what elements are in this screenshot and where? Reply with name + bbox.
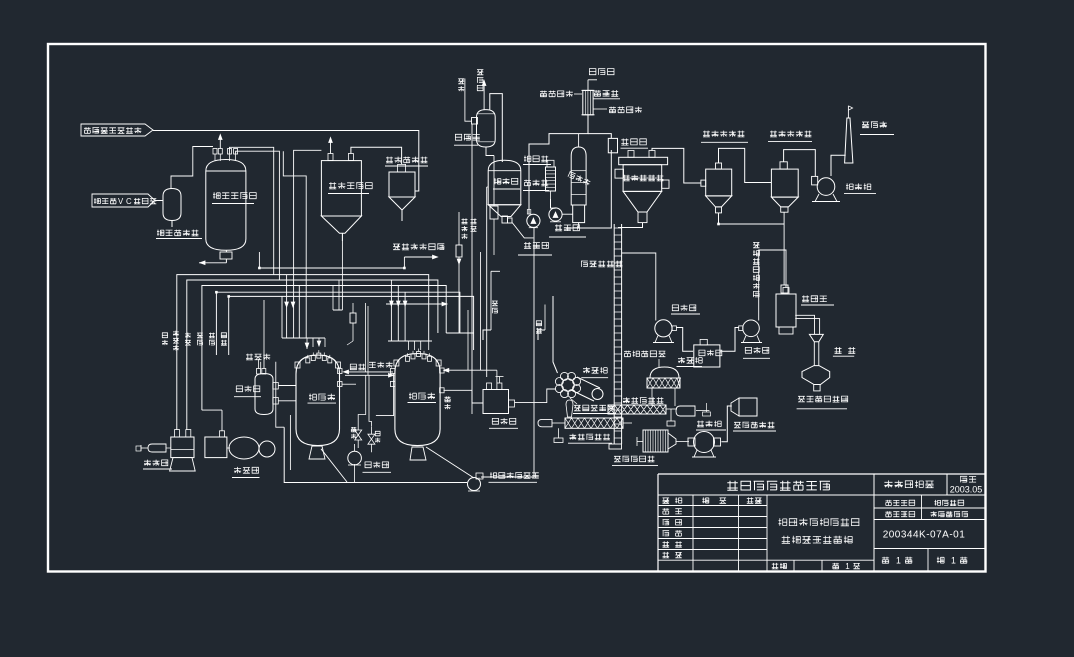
wire: air line vertical: [483, 271, 500, 340]
label: 热水槽 left: [234, 386, 261, 397]
svg-text:2003.05: 2003.05: [950, 485, 983, 495]
vessel: hot water tank 热水槽 mid: [694, 339, 720, 367]
label: 自沉淀槽来: [624, 351, 665, 367]
wire: tank to kettle1: [278, 386, 296, 401]
wire: recovery to emulsion tank: [490, 94, 503, 162]
wire: bus line 5: [227, 295, 473, 355]
label: 螺旋加料器 1: [623, 397, 663, 403]
label: 聚氯乙烯浆液: [489, 472, 539, 482]
table row labels: [663, 508, 682, 558]
svg-text:1: 1: [845, 562, 850, 571]
fan: induced draft fan 引风机: [812, 176, 840, 201]
column: flash dryer 气流干燥器: [609, 223, 643, 449]
label: 去污工段废水沟 vertical: [753, 242, 760, 297]
title: project name line1: [779, 518, 860, 526]
label: 引风机: [844, 183, 876, 193]
pump: 料液泵 1: [512, 214, 540, 238]
title block grid: [658, 474, 986, 571]
wire: slurry pump lines: [276, 362, 467, 483]
vessel: cyclone separator 1 旋风分离器: [701, 163, 732, 213]
wire: tank low to centrifuge: [515, 389, 557, 403]
wire: sep1 bottom drain: [717, 213, 784, 225]
vessel: emulsion tank 乳析槽: [488, 160, 521, 223]
table header labels: [663, 497, 762, 503]
label: 回收罐: [454, 134, 480, 145]
label: 软水计量槽: [328, 182, 373, 193]
pump: vacuum pump 真空泵: [205, 431, 275, 459]
label: 气提塔: [567, 171, 590, 186]
label: 热水槽 mid: [699, 350, 723, 356]
equipment: centrifuge 离心机: [555, 372, 603, 401]
wire: steam line to kettle2: [444, 252, 497, 383]
wire: monomer feed: [155, 200, 163, 202]
pump: hot water pump bottom 热水泵: [348, 444, 362, 465]
title: design institute name: [727, 481, 830, 491]
svg-text:1: 1: [951, 556, 956, 566]
label: 振动筛: [801, 295, 834, 305]
label: 旋风分离器 1: [701, 131, 748, 143]
label: 鼓风机: [696, 421, 726, 430]
label: 热水泵 bottom: [363, 462, 392, 473]
wire: rotameter drop right: [456, 212, 462, 333]
label: 去蒸浆液池: [570, 398, 616, 414]
wire: intermediate tank down: [566, 150, 611, 228]
wire: steam drop: [358, 303, 371, 426]
wire: blower to air filter: [721, 406, 731, 442]
equipment: vibrating screen 振动筛: [776, 288, 796, 335]
wire: bus line 1: [177, 275, 429, 430]
wire: metering tank nozzle line B: [236, 151, 280, 280]
pump: 料液泵 2: [549, 199, 573, 222]
fan: blower 鼓风机: [688, 432, 721, 458]
label: 乳析槽: [493, 178, 520, 189]
label: 离心机 1: [581, 367, 608, 378]
wire: metering tank discharge header: [199, 261, 226, 265]
label: 旋风分离器 2: [768, 131, 812, 142]
wire: bus line 2: [187, 280, 438, 430]
wire: recovery tank bottom: [486, 147, 494, 156]
wire: header h9 arrow: [386, 302, 447, 306]
wire: sep1 to sep2: [719, 148, 772, 182]
label: 料仓: [833, 347, 855, 356]
stack: exhaust stack 排气筒: [845, 106, 853, 163]
nozzle: kettle side squares: [338, 368, 445, 416]
wire: header h3: [258, 252, 406, 269]
label: 去气柜 vertical: [477, 70, 483, 91]
label: 空气 vertical: [492, 301, 498, 313]
label: 热水槽 low: [489, 418, 518, 428]
label: 气流干燥器: [581, 261, 622, 267]
vessel: vacuum buffer tank: [170, 430, 196, 471]
label: 离心机 2: [677, 357, 703, 366]
pump: hot water pump right 热水泵: [739, 320, 762, 343]
pump: hot water pump mid 热水泵: [653, 320, 676, 343]
label: 步级泵: [143, 460, 172, 469]
wire: rotameter drop kettle1: [347, 303, 356, 345]
wire: kettle1 feed drops: [282, 150, 325, 349]
label: 一次水: [369, 362, 393, 368]
svg-text:200344K-07A-01: 200344K-07A-01: [883, 530, 966, 541]
wire: filter to metering tank: [171, 147, 213, 189]
label: 过滤器: [523, 180, 549, 191]
label: 预热器: [523, 156, 551, 165]
wire: rotameter drop kettle2: [490, 156, 498, 256]
vessel: recovery tank 回收罐: [472, 110, 496, 147]
heat exchanger: preheater 预热器: [546, 160, 556, 199]
label: 热水泵 right: [743, 347, 770, 358]
label: 聚合釜 2: [408, 393, 437, 403]
border frame: [48, 44, 986, 572]
label: 成品包装入库: [797, 396, 849, 409]
label: 单体计量槽: [212, 192, 257, 203]
wire: soft water header: [153, 131, 419, 192]
label: 料液泵 2: [549, 224, 586, 237]
vessel: intermediate tank 中间槽: [608, 138, 617, 152]
wire: dryer to separator1: [652, 148, 701, 183]
wire: fan to stack: [831, 155, 846, 176]
wire: stripper bottoms to tank: [472, 124, 483, 403]
label: 放空 vertical: [462, 218, 477, 239]
svg-text:1: 1: [896, 556, 901, 566]
vessel: hot water tank 热水槽 left: [255, 300, 278, 415]
label: 去汽提塔回收: [393, 243, 444, 250]
heat exchanger: condenser 冷凝器: [582, 80, 598, 115]
vessel: soft water metering tank 软水计量槽: [321, 154, 361, 242]
wire: pump mid suction: [676, 328, 693, 352]
vessel: polymerization kettle 2 聚合釜: [394, 349, 474, 479]
title: sheet cells: [882, 556, 967, 566]
label: 旋风干燥器: [623, 175, 663, 181]
wire: metering tank nozzle line A: [230, 147, 274, 274]
wire: sep2 bottom to screen: [781, 212, 788, 293]
wire: sep2 to fan: [784, 150, 816, 177]
wire: bus line 3: [202, 286, 446, 431]
vessel: hot water tank 热水槽 low: [483, 377, 515, 414]
label: 料液泵 1: [518, 242, 552, 255]
label: 冷冻盐水 out: [593, 107, 642, 113]
wire: kettle1 drain left: [289, 415, 291, 470]
wire: misc center drops: [333, 233, 403, 310]
label: 至气柜: [589, 69, 614, 75]
vessel: soft water filter 软水过滤器: [389, 164, 415, 221]
svg-text:V: V: [118, 197, 124, 206]
title: project name line2: [782, 536, 853, 544]
vessel: polymerization kettle 1 聚合釜: [295, 350, 347, 482]
wire: kettle2 right lower: [444, 390, 473, 414]
label: 蒸汽 vertical: [536, 305, 545, 341]
label: 空气过滤器: [733, 422, 776, 431]
wire: steam line to kettle1: [344, 370, 394, 377]
equipment: screw feeder 1 螺旋加料器: [608, 403, 711, 426]
label: 螺旋加料器 2: [568, 434, 612, 443]
pump: 步级泵: [136, 444, 171, 452]
equipment: screw feeder 2 螺旋加料器: [538, 400, 632, 443]
vessel: cyclone dryer 旋风干燥器: [615, 151, 669, 223]
title: drawing number: [883, 530, 966, 541]
label: 热水泵 mid: [671, 305, 700, 314]
label: 蒸汽: [350, 364, 365, 370]
label: 单体过滤器: [156, 230, 202, 239]
title: project cells: [885, 500, 968, 517]
wire: recovery tank vent to gas holder: [482, 81, 486, 110]
title: factory name: [884, 480, 933, 487]
equipment: disc feeder dome: [647, 367, 681, 406]
column: stripping column 气提塔: [571, 134, 586, 228]
valve: cooling water valve B: [368, 426, 380, 452]
label: 上水 vertical: [458, 79, 471, 122]
svg-text:C: C: [126, 197, 132, 206]
wire: pump1 discharge: [533, 228, 535, 478]
wire: screen chute to hopper: [795, 315, 819, 334]
vessel: cyclone separator 2 旋风分离器: [771, 162, 798, 212]
wire: bus bottom connector: [446, 332, 473, 334]
flow tag: soft water from boiler house: [81, 124, 153, 136]
label: 中间槽: [621, 139, 649, 149]
wire: pump right discharge: [720, 328, 739, 352]
flow tag: monomer from VC section: [92, 194, 156, 207]
wire: emulsion side line: [487, 187, 489, 377]
label: 空气加热器: [612, 456, 658, 466]
wire: bus line 4: [215, 291, 460, 355]
label: 聚合釜 1: [308, 394, 337, 404]
label: 冷冻盐水 in: [540, 91, 582, 97]
wire: kettle2 feed drops: [388, 280, 432, 350]
label: 工业水: [246, 354, 270, 369]
vessel: monomer metering tank 单体计量槽: [206, 149, 246, 263]
equipment: air filter 空气过滤器: [731, 398, 757, 416]
valve: cooling water valve A: [351, 422, 362, 448]
wire: pump right to screen: [759, 250, 786, 321]
wire: tank inlet from filter: [351, 147, 402, 164]
title: scale cell: [772, 562, 860, 571]
label: 软水过滤器: [385, 157, 428, 166]
wire: pump1 to slurry pump: [481, 476, 534, 478]
wire: condenser bottom loop: [527, 115, 611, 214]
label: 冷凝器: [593, 90, 620, 99]
label: 排气筒: [860, 121, 894, 134]
vessel: product hopper 料仓: [802, 334, 830, 391]
wire: tank vent: [219, 135, 223, 149]
label: 真空泵: [232, 467, 260, 478]
vessel: monomer filter 单体过滤器: [163, 189, 181, 228]
label: utility names vertical: [162, 331, 227, 351]
wire: centrifuge feed: [553, 296, 558, 373]
pump: PVC slurry pump: [468, 473, 484, 491]
wire: pump mid discharge: [622, 253, 656, 321]
heat exchanger: air heater 空气加热器: [637, 430, 689, 452]
wire: tank left nozzle vent: [329, 138, 333, 154]
title: city and date: [950, 476, 983, 494]
wire: recycle header to stripper: [404, 255, 437, 268]
